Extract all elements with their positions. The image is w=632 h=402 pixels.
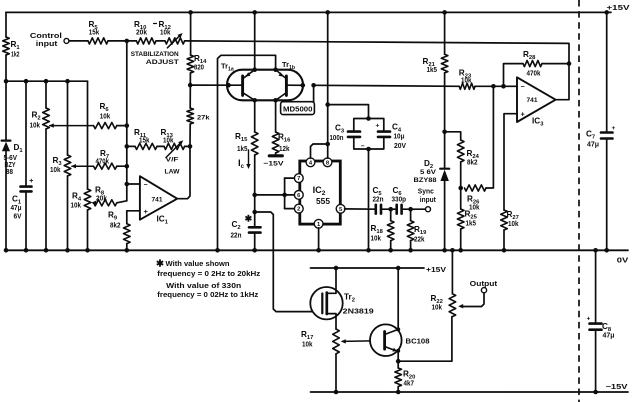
wire left rail x6	[5, 12, 7, 250]
IC2 pin 6	[294, 191, 303, 200]
svg-text:6V: 6V	[14, 214, 22, 221]
svg-text:+: +	[376, 123, 380, 130]
resistor R12 10k stabilization pot	[159, 20, 185, 48]
svg-text:input: input	[420, 195, 437, 204]
node Tr1a base tap	[188, 83, 193, 88]
wire IC1 inverting input	[127, 183, 140, 185]
wire summing column x126.8	[126, 41, 128, 201]
node R6 junction	[125, 123, 130, 128]
node R19 junction	[408, 207, 413, 212]
svg-text:With value of 330n: With value of 330n	[166, 283, 241, 290]
terminal Sync input	[418, 187, 437, 212]
wire pin2-node to Tr2 gate	[255, 212, 319, 314]
node R28/output junction	[567, 61, 572, 66]
svg-text:BC108: BC108	[406, 336, 430, 345]
transistor Tr1a	[221, 62, 255, 101]
svg-text:+: +	[144, 207, 149, 216]
op-amp IC1 741	[140, 176, 177, 225]
svg-text:LAW: LAW	[165, 169, 181, 176]
wire R21 to D2	[444, 73, 446, 169]
node C8 0V dot	[593, 248, 598, 253]
svg-text:5 6V: 5 6V	[420, 169, 437, 176]
wire R24 to R25	[460, 162, 462, 209]
resistor R1	[3, 37, 21, 59]
wire R3 column	[67, 81, 69, 250]
svg-text:With value shown: With value shown	[166, 261, 230, 268]
resistor R24 8k2	[457, 140, 479, 167]
node R18 0V dot	[388, 248, 393, 253]
svg-text:✱: ✱	[245, 214, 253, 224]
svg-text:+: +	[29, 178, 33, 185]
svg-text:STABILIZATION: STABILIZATION	[131, 51, 179, 58]
wire bottom +15V segment	[311, 267, 447, 274]
wire base line left	[190, 84, 228, 86]
node Tr1a collector top	[252, 67, 257, 72]
resistor R21 1k5	[423, 54, 448, 74]
svg-text:MD5000: MD5000	[283, 107, 313, 114]
svg-text:input: input	[36, 39, 58, 48]
capacitor C3 100n	[330, 119, 369, 150]
wire pin5 to C5	[345, 208, 376, 210]
svg-text:2N3819: 2N3819	[343, 307, 374, 316]
node BC108 collector dot	[396, 266, 401, 332]
svg-text:10k: 10k	[432, 305, 443, 312]
wire R17 wiper to BC108 base	[341, 339, 384, 343]
svg-text:+15V: +15V	[426, 267, 446, 274]
resistor R9 8k2	[108, 211, 130, 251]
resistor R11 15k	[127, 128, 157, 150]
svg-text:555: 555	[316, 197, 331, 206]
svg-text:100n: 100n	[330, 135, 344, 142]
capacitor C1 47u 6V	[11, 81, 34, 250]
capacitor C4 10u 20V	[361, 119, 407, 151]
resistor R22 10k (pot)	[431, 250, 456, 316]
node MD5000 leader dot	[311, 83, 316, 88]
wire Tr1b emitter down	[275, 100, 277, 132]
svg-text:10k: 10k	[302, 342, 313, 349]
node IC1 minus junction	[125, 182, 130, 187]
svg-text:47μ: 47μ	[11, 205, 22, 212]
wire BC108 emitter node	[396, 349, 400, 368]
node D2 0V dot	[442, 248, 447, 253]
svg-text:0V: 0V	[617, 255, 629, 264]
node R21 bus dot	[442, 10, 447, 15]
node R18 junction	[388, 207, 393, 212]
node stadium right tip	[301, 83, 306, 88]
svg-text:BZY88: BZY88	[414, 177, 437, 184]
IC2 pin 4	[306, 158, 315, 167]
node pin4/pin8 join	[325, 142, 330, 147]
node R27 0V dot	[502, 248, 507, 253]
wire R2 column	[45, 81, 47, 250]
diode D2 (zener 5.6V BZY88)	[414, 159, 450, 184]
node Tr1b emitter bottom	[273, 98, 278, 103]
capacitor C6 330p	[392, 186, 407, 214]
svg-text:✱: ✱	[156, 259, 165, 270]
resistor R15 1k5	[235, 132, 258, 155]
svg-text:10k: 10k	[100, 114, 111, 121]
svg-text:V/F: V/F	[166, 157, 179, 164]
node Tr1b collector top	[273, 67, 278, 72]
power -15V terminal under R16	[264, 153, 285, 167]
node R25 0V dot	[458, 248, 463, 253]
node C3C4 top join	[366, 116, 371, 121]
node R19 0V dot	[408, 248, 413, 253]
resistor R17 10k (pot)	[301, 329, 339, 392]
label stabilization adjust	[131, 51, 180, 66]
node +15V top-right dot	[604, 3, 629, 15]
svg-text:10k: 10k	[469, 205, 480, 212]
resistor R4 10k (pot)	[71, 189, 91, 210]
boundary dashed line	[578, 0, 580, 402]
svg-text:10k: 10k	[30, 123, 41, 130]
svg-text:470k: 470k	[527, 71, 541, 78]
svg-text:frequency = 0 02Hz to 1kHz: frequency = 0 02Hz to 1kHz	[157, 292, 259, 299]
node bracket junction	[282, 193, 294, 198]
svg-text:27k: 27k	[197, 115, 210, 122]
svg-text:2: 2	[297, 207, 300, 213]
wire C7 column	[606, 12, 608, 250]
node pins-7-6-2 junction	[252, 193, 257, 198]
transistor pair outline (stadium)	[227, 70, 303, 101]
svg-text:1k5: 1k5	[237, 146, 248, 153]
svg-text:22k: 22k	[414, 237, 425, 244]
svg-text:820: 820	[194, 65, 204, 72]
svg-text:+: +	[587, 316, 591, 323]
wire 0V bus	[6, 250, 629, 264]
wire BC108 collector to +15V	[397, 268, 399, 329]
svg-text:+: +	[612, 125, 616, 132]
wire C3C4 down to 0V	[368, 149, 370, 250]
IC2 555 box	[300, 161, 341, 224]
capacitor C2 22n	[231, 214, 261, 251]
transistor BC108	[370, 324, 430, 356]
wire R15 to pin-6 node	[254, 155, 256, 227]
svg-text:330p: 330p	[392, 197, 407, 204]
svg-text:15k: 15k	[139, 138, 150, 145]
wire Tr1a top to +15V bus	[254, 12, 256, 69]
svg-text:20V: 20V	[394, 143, 406, 150]
node Tr1a emitter bottom	[252, 98, 257, 103]
wire pins bracket	[255, 178, 295, 209]
node stadium left tip	[226, 83, 231, 88]
node gate-wire junction	[252, 210, 257, 215]
wire R24 branch top	[445, 132, 461, 140]
node R7 junction	[125, 164, 130, 169]
resistor R19 22k	[407, 209, 427, 250]
wire -15V rail	[311, 384, 629, 392]
capacitor C8 47u	[587, 316, 615, 340]
wire base line to R23	[314, 85, 460, 86]
resistor R6 10k	[49, 102, 127, 129]
svg-text:12k: 12k	[279, 146, 290, 153]
node C2 0V dot	[252, 248, 257, 253]
capacitor C5 22n	[373, 186, 384, 214]
wire D2 to 0V	[444, 181, 446, 250]
capacitor C7 47u	[586, 125, 616, 149]
wire R28 feedback left	[504, 64, 524, 87]
node C3C4 bottom join	[366, 147, 371, 152]
wire control to R5	[69, 40, 88, 42]
svg-text:20k: 20k	[96, 195, 107, 202]
svg-text:20k: 20k	[136, 30, 147, 37]
resistor R27 10k	[501, 210, 519, 250]
svg-text:ADJUST: ADJUST	[146, 59, 180, 66]
wire pin1 to 0V	[318, 228, 320, 251]
transistor Tr2 2N3819 JFET	[310, 268, 373, 329]
svg-text:15k: 15k	[89, 30, 100, 37]
svg-text:10k: 10k	[163, 138, 174, 145]
svg-text:frequency = 0 2Hz to 20kHz: frequency = 0 2Hz to 20kHz	[157, 271, 261, 278]
node C3C4 tap	[325, 102, 330, 107]
resistor R7 470k	[71, 149, 127, 169]
wire R10-R12	[156, 40, 165, 42]
terminal Control input	[30, 31, 69, 48]
svg-text:470k: 470k	[96, 159, 110, 166]
svg-text:BZY: BZY	[5, 162, 16, 169]
diode D1 (zener 5.6V BZY88)	[2, 141, 24, 176]
wire stabilization line to IC3 output	[185, 41, 569, 64]
resistor R20 4k7	[395, 368, 415, 392]
op-amp IC3 741	[517, 77, 556, 127]
svg-text:+: +	[521, 109, 526, 118]
node R13/27k/IC1-out junction	[188, 144, 193, 149]
node C7 0V dot	[604, 248, 609, 253]
svg-text:−15V: −15V	[264, 160, 285, 167]
node R11 junction	[125, 144, 130, 149]
node IC3 minus R26 junction	[491, 84, 496, 89]
wire R22 wiper to output	[458, 279, 498, 309]
node IC3 minus R28 junction	[501, 84, 506, 89]
svg-text:22n: 22n	[373, 197, 384, 204]
wire C5 to C6	[381, 208, 397, 210]
wire emitter to R22 bottom	[398, 317, 452, 362]
node C8 -15V dot	[593, 390, 598, 395]
node base-circle dot	[369, 339, 374, 344]
node R22 0V dot	[450, 248, 455, 253]
transistor Tr1b	[276, 60, 303, 100]
svg-text:8k2: 8k2	[467, 160, 478, 167]
wire R5 to junction	[108, 40, 136, 42]
resistor R28 470k	[523, 50, 569, 78]
wire pin8 +15V column	[327, 12, 329, 158]
node dots on y81 bus	[4, 79, 70, 84]
wire IC1 plus input / R9 top	[127, 211, 140, 224]
svg-text:10k: 10k	[508, 221, 519, 228]
wire R4 column	[87, 189, 89, 250]
node x217.5 0V dot	[215, 248, 220, 253]
node C3C4 0V dot	[366, 248, 371, 253]
svg-text:−15V: −15V	[606, 384, 628, 391]
svg-text:88: 88	[6, 169, 13, 176]
IC2 pin 2	[294, 204, 303, 213]
svg-text:1k5: 1k5	[427, 67, 438, 74]
resistor R16 12k	[272, 132, 291, 153]
wire IC3 output	[556, 64, 569, 100]
IC2 pin 1	[314, 219, 323, 228]
wire C3C4 top	[328, 105, 369, 119]
resistor R23 10k	[459, 69, 517, 90]
resistor R8 20k	[91, 186, 127, 206]
svg-text:−: −	[144, 182, 148, 189]
svg-text:1k5: 1k5	[466, 221, 477, 228]
svg-text:Output: Output	[470, 279, 498, 288]
IC2 pin 7	[294, 174, 303, 183]
node R24/R25/R26 junction	[458, 186, 463, 191]
node pin8 bus dot	[325, 10, 330, 15]
svg-text:7: 7	[297, 176, 300, 182]
wire C8 column	[595, 250, 597, 392]
IC2 pin 8	[323, 158, 332, 167]
node R14 top bus dot	[188, 10, 193, 15]
svg-text:10k: 10k	[71, 203, 82, 210]
wire bus y81	[6, 81, 88, 189]
svg-text:741: 741	[527, 97, 538, 104]
wire 27k to node	[189, 124, 191, 146]
svg-text:10k: 10k	[371, 236, 382, 243]
svg-text:4k7: 4k7	[404, 381, 415, 388]
wire +15V to R14	[190, 12, 192, 55]
wire IC1 output up to R13 node	[177, 146, 190, 198]
wire R14 to 27k	[189, 73, 191, 108]
node 0V dots left	[4, 248, 129, 253]
resistor R25 1k5	[457, 209, 477, 250]
node R24 branch	[442, 130, 447, 135]
node Tr2 drain +15V dot	[334, 266, 339, 271]
wire pin4 up	[311, 144, 328, 158]
resistor R5 15k	[88, 20, 108, 44]
resistor R10 20k	[134, 20, 157, 44]
label MD5000 box	[281, 85, 315, 114]
current arrow Ic	[238, 150, 251, 170]
svg-text:10k: 10k	[160, 30, 171, 37]
svg-text:741: 741	[152, 196, 163, 203]
svg-text:10k: 10k	[461, 78, 472, 85]
node junction R5/R10 x126.8	[125, 39, 130, 44]
svg-text:10k: 10k	[50, 167, 61, 174]
node emitter junction	[396, 359, 401, 364]
node -15V rail dots	[334, 390, 401, 395]
svg-text:+15V: +15V	[607, 3, 630, 12]
wire Tr1a emitter down	[254, 100, 256, 132]
note frequency values	[156, 259, 261, 299]
resistor R13 10k V/F law pot	[157, 128, 190, 176]
svg-text:47μ: 47μ	[603, 333, 615, 340]
wire R21 column	[444, 12, 446, 54]
wire Tr1b top loop to x217.5 down to 0V	[218, 55, 276, 250]
resistor R18 10k	[371, 209, 395, 250]
resistor R26 10k	[465, 86, 494, 211]
svg-text:47μ: 47μ	[587, 142, 599, 149]
node pin1 0V dot	[316, 248, 321, 253]
svg-text:1k2: 1k2	[11, 52, 20, 59]
resistor R3 10k (pot)	[50, 155, 71, 176]
svg-text:8k2: 8k2	[110, 223, 121, 230]
resistor R2 10k (pot)	[30, 108, 50, 130]
wire IC3 plus input	[504, 114, 517, 210]
resistor 27k	[187, 108, 210, 124]
svg-text:10μ: 10μ	[394, 134, 405, 141]
svg-text:−: −	[361, 143, 365, 150]
svg-text:22n: 22n	[231, 233, 242, 240]
svg-text:−: −	[521, 84, 525, 91]
wire +15V top bus	[6, 11, 611, 13]
wire C6 to sync	[402, 208, 426, 210]
node Tr1a bus dot	[252, 10, 257, 15]
IC2 pin 5	[336, 204, 345, 213]
resistor R14 820	[187, 54, 207, 73]
